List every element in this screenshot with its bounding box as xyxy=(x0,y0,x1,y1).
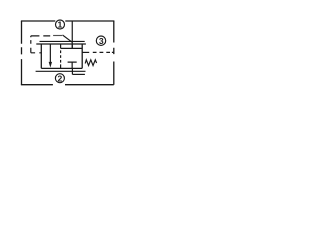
port 1 line (top) xyxy=(71,21,73,48)
svg-text:1: 1 xyxy=(58,19,63,29)
cartridge envelope right edge (chain-line gap) xyxy=(113,21,115,85)
pilot line right: stub from valve xyxy=(82,51,89,53)
pilot line left: top run toward port 1 xyxy=(31,35,62,37)
port label 2 (circled) xyxy=(55,73,64,83)
valve body: top edge (extended, modulating style) xyxy=(36,43,86,45)
port label 3 (circled) xyxy=(96,36,105,46)
spring (right of valve) xyxy=(85,60,96,66)
blocked port T (bottom, right position) xyxy=(68,62,77,68)
valve body: left edge xyxy=(40,44,42,68)
valve position divider (dashed, modulating) xyxy=(60,44,62,68)
port 2 leader rail xyxy=(72,73,85,75)
valve body: right edge xyxy=(81,44,83,68)
leader line from label 1 to port 1 xyxy=(63,35,73,42)
pilot line left: vertical riser xyxy=(30,36,32,53)
svg-text:3: 3 xyxy=(99,36,104,46)
valve body: bottom edge xyxy=(41,67,82,69)
cartridge envelope bottom edge (gap at port label 2) xyxy=(21,84,114,86)
blocked port bar (top, right position) xyxy=(61,44,83,48)
port label 1 (circled) xyxy=(56,19,65,29)
svg-text:2: 2 xyxy=(58,73,63,83)
pilot line left: bottom run into valve xyxy=(31,52,42,54)
valve aux parallel line below (infinite positioning) xyxy=(36,70,86,72)
valve aux parallel line above (infinite positioning) xyxy=(40,40,85,42)
open flow path arrow (left position) xyxy=(49,44,52,68)
pilot line right: dashed run to port 3 edge xyxy=(93,51,114,53)
port 2 line (valve to label leader) xyxy=(71,68,73,74)
cartridge envelope top edge (gap at port label 1) xyxy=(21,20,115,22)
cartridge envelope left edge (chain-line dash) xyxy=(21,21,23,85)
